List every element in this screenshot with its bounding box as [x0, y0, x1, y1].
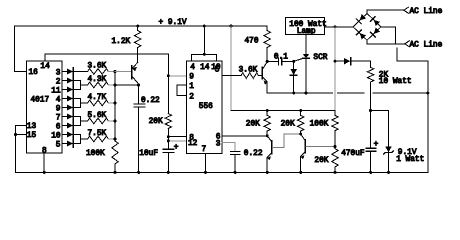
- diode ladder pin 3: [62, 71, 67, 73]
- svg-text:9: 9: [56, 105, 61, 113]
- wire lamp to bridge + node: [325, 26, 354, 28]
- svg-text:AC Line: AC Line: [410, 42, 443, 50]
- wire rail drop to 20K pullup line: [230, 26, 232, 111]
- wire bridge node drop: [334, 27, 336, 111]
- capacitor C2 10uF: [163, 149, 173, 152]
- svg-text:0.1: 0.1: [274, 53, 288, 61]
- diode ladder pin 5: [62, 143, 67, 145]
- svg-text:10uF: 10uF: [139, 150, 158, 158]
- diode ladder pin 9: [62, 107, 67, 109]
- svg-text:1 Watt: 1 Watt: [396, 156, 424, 164]
- wire 556 pin8 lead: [168, 136, 186, 138]
- resistor 20K Q3 collector: [266, 111, 268, 116]
- svg-text:2: 2: [56, 78, 61, 86]
- transistor Q3: [266, 134, 269, 137]
- wire 556 pin12 lead: [168, 140, 186, 142]
- transistor Q1 PNP: [131, 66, 133, 79]
- resistor 1.2K: [137, 26, 139, 31]
- svg-text:100K: 100K: [310, 121, 329, 129]
- resistor 4.3K ladder: [88, 82, 109, 88]
- wire 20K pullup line: [231, 110, 335, 112]
- svg-text:7: 7: [202, 146, 207, 154]
- wire AC2 to ground rail: [397, 48, 428, 173]
- wire join diode rows 4+9: [74, 99, 88, 108]
- wire +9.1V rail and 4017 pin16 feed: [14, 26, 267, 72]
- svg-text:0.22: 0.22: [244, 150, 263, 158]
- bridge diode bottom-right: [370, 27, 380, 37]
- svg-text:5: 5: [56, 141, 61, 149]
- wire AC line 2: [367, 40, 405, 44]
- svg-text:14: 14: [200, 64, 210, 72]
- zener D7 9.1V: [385, 146, 392, 152]
- capacitor C3 0.22: [230, 151, 240, 154]
- svg-text:3: 3: [56, 69, 61, 77]
- transistor Q2 NPN driver: [266, 60, 269, 63]
- resistor 470: [266, 26, 268, 31]
- resistor 20K Q4 collector: [300, 111, 302, 116]
- wire 556 pins 4,14,10 to rail: [191, 26, 216, 61]
- lamp load box: [286, 18, 325, 35]
- resistor 100K divider: [334, 111, 336, 116]
- svg-text:SCR: SCR: [313, 54, 327, 62]
- diode D5 gate clamp: [293, 61, 295, 69]
- diode ladder pin 2: [62, 80, 67, 82]
- svg-text:5: 5: [215, 67, 220, 75]
- svg-text:20K: 20K: [281, 121, 295, 129]
- svg-text:4017: 4017: [31, 97, 50, 105]
- svg-text:100K: 100K: [86, 150, 105, 158]
- node rail junction dots: [136, 25, 139, 28]
- wire diode row pin3 to R 3.6K: [74, 71, 88, 73]
- svg-text:470: 470: [245, 38, 259, 46]
- capacitor C1 0.22: [134, 104, 145, 107]
- wire 4017 pin8 to ground: [43, 153, 45, 172]
- wire 556 pin5 lead: [222, 75, 241, 77]
- svg-text:470uF: 470uF: [341, 150, 365, 158]
- svg-text:14: 14: [40, 63, 50, 71]
- svg-text:1: 1: [189, 83, 194, 91]
- svg-text:+ 9.1V: + 9.1V: [159, 19, 187, 27]
- svg-text:3.6K: 3.6K: [88, 62, 107, 70]
- svg-text:20K: 20K: [246, 121, 260, 129]
- resistor 4.7K ladder: [88, 100, 109, 106]
- wire join diode rows 7+6: [74, 117, 88, 126]
- wire 556 pin3 lead: [222, 142, 235, 151]
- capacitor C4 0.1: [267, 60, 278, 62]
- wire row2 tie to Q1 collector: [115, 84, 139, 86]
- svg-text:AC Line: AC Line: [410, 8, 443, 16]
- wire Q1 collector down to C 0.22: [138, 85, 140, 104]
- svg-text:15: 15: [27, 132, 37, 140]
- svg-text:1.2K: 1.2K: [112, 38, 131, 46]
- svg-text:+: +: [174, 144, 179, 152]
- wire Q4 base to divider: [306, 146, 335, 148]
- transistor Q4: [299, 133, 302, 136]
- svg-text:7: 7: [56, 114, 61, 122]
- svg-text:+: +: [374, 141, 379, 149]
- bridge rectifier diamond: [353, 13, 381, 40]
- svg-text:556: 556: [199, 103, 213, 111]
- diode ladder pin 4: [62, 98, 67, 100]
- svg-text:4: 4: [56, 96, 61, 104]
- svg-text:11: 11: [51, 87, 61, 95]
- svg-text:20K: 20K: [149, 118, 163, 126]
- bridge diode top-right: [370, 17, 380, 27]
- wire 4017 pin14 to 556 pin9 / 20K timing node: [45, 54, 169, 114]
- resistor 2K 10 Watt: [367, 67, 373, 82]
- wire summing bus: [114, 72, 116, 142]
- wire to zener: [371, 111, 389, 147]
- svg-text:4.7K: 4.7K: [88, 94, 107, 102]
- wire 556 pin7 to ground: [205, 154, 207, 173]
- diode ladder pin 6: [62, 125, 67, 127]
- resistor 7.5K ladder: [88, 136, 109, 142]
- svg-text:3.6K: 3.6K: [239, 67, 258, 75]
- wire bridge right vertex: [381, 27, 396, 44]
- svg-text:13: 13: [27, 123, 37, 131]
- wire SCR cathode rail: [267, 92, 428, 94]
- wire SCR gate: [294, 58, 303, 61]
- resistor 5.6K ladder: [88, 118, 109, 124]
- svg-text:20K: 20K: [314, 157, 328, 165]
- svg-text:4.3K: 4.3K: [88, 76, 107, 84]
- IC U2 556 box: [187, 61, 223, 154]
- svg-text:9: 9: [189, 74, 194, 82]
- svg-text:12: 12: [188, 140, 198, 148]
- wire AC line 1: [367, 10, 404, 13]
- capacitor C5 470uF: [366, 148, 376, 151]
- svg-text:2: 2: [189, 94, 194, 102]
- svg-text:0.22: 0.22: [141, 97, 160, 105]
- svg-text:16: 16: [29, 69, 39, 77]
- resistor 100K to ground: [112, 141, 118, 164]
- wire join diode rows 2+11: [74, 81, 88, 90]
- svg-text:10: 10: [51, 132, 61, 140]
- svg-text:3: 3: [216, 140, 221, 148]
- svg-text:7.5K: 7.5K: [88, 130, 107, 138]
- svg-text:4: 4: [190, 64, 195, 72]
- wire 4017 pin13/pin15 to ground: [16, 126, 27, 173]
- resistor 20K timing: [165, 114, 171, 129]
- resistor 20K divider: [332, 149, 338, 167]
- wire 556 pin6 lead to Q3 collector: [222, 135, 267, 137]
- SCR Q5: [305, 35, 307, 54]
- diode ladder pin 11: [62, 89, 67, 91]
- diode ladder pin 10: [62, 134, 67, 136]
- wire ground rail: [16, 171, 428, 173]
- wire Q1 base lead: [115, 71, 131, 73]
- bridge diode bottom-left: [356, 30, 366, 40]
- wire 556 pin9 lead: [168, 75, 186, 77]
- wire Q3 base to Q4 collector: [273, 134, 301, 148]
- diode D6 to 2K: [335, 60, 344, 62]
- resistor 3.6K base: [241, 73, 259, 79]
- IC U1 4017 box: [27, 61, 63, 153]
- svg-text:Lamp: Lamp: [297, 28, 316, 36]
- svg-text:10 Watt: 10 Watt: [379, 78, 412, 86]
- diode ladder pin 7: [62, 116, 67, 118]
- wire 556 pins1-2 tie: [177, 85, 186, 96]
- svg-text:6: 6: [56, 123, 61, 131]
- svg-text:5.6K: 5.6K: [88, 112, 107, 120]
- bridge diode top-left: [356, 14, 366, 24]
- wire join diode rows 10+5: [74, 135, 88, 144]
- resistor 3.6K ladder: [88, 69, 109, 75]
